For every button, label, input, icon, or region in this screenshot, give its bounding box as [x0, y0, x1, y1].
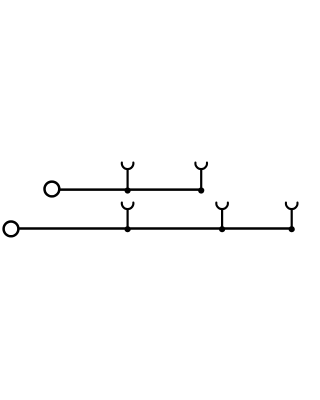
junction dot at node T2 (end of upper wire) — [198, 187, 204, 193]
wire (lower level bus) — [19, 227, 292, 230]
clamp terminal T5 (lower level, stem) — [291, 209, 293, 228]
clamp terminal T2 (upper level, stem) — [200, 169, 202, 189]
junction dot at node T3 on lower wire — [125, 226, 131, 232]
clamp terminal T1 (upper level, stem) — [126, 169, 128, 189]
clamp terminal T4 (lower level, fork cup) — [216, 203, 228, 209]
clamp terminal T1 (upper level, fork cup) — [122, 163, 134, 169]
test socket O2 (lower level, left) — [4, 222, 19, 237]
wire (upper level bus) — [59, 188, 201, 191]
clamp terminal T5 (lower level, fork cup) — [286, 203, 298, 209]
clamp terminal T3 (lower level, stem) — [126, 209, 128, 228]
junction dot at node T4 on lower wire — [219, 226, 225, 232]
junction dot at node T1 on upper wire — [125, 187, 131, 193]
clamp terminal T4 (lower level, stem) — [221, 209, 223, 228]
junction dot at node T5 (end of lower wire) — [289, 226, 295, 232]
test socket O1 (upper level, left) — [45, 182, 60, 197]
clamp terminal T2 (upper level, fork cup) — [195, 163, 207, 169]
clamp terminal T3 (lower level, fork cup) — [122, 203, 134, 209]
